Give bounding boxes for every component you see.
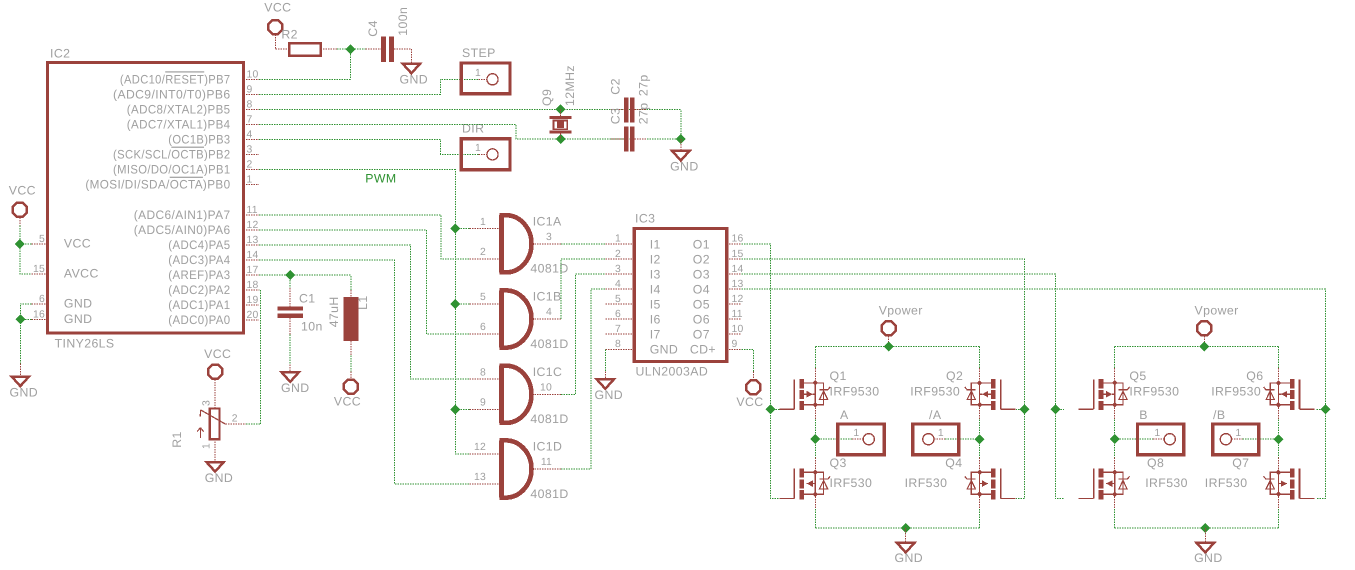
Vpower symbol bbox=[1197, 321, 1211, 335]
wire PWM branch to gate3 input2 bbox=[455, 408, 469, 410]
ground bridge bbox=[1197, 543, 1214, 553]
wire IC3 GND pin 8 bbox=[604, 349, 606, 371]
svg-text:(ADC2)PA2: (ADC2)PA2 bbox=[168, 283, 230, 297]
svg-text:2: 2 bbox=[480, 247, 486, 258]
wire pin 7 XTAL1 to crystal bottom row bbox=[259, 125, 681, 140]
C4 left pin bbox=[366, 48, 382, 50]
wire O1 net to bridge1 left gates bbox=[742, 244, 780, 499]
svg-text:(MISO/DO/OC1A)PB1: (MISO/DO/OC1A)PB1 bbox=[113, 163, 231, 177]
wire node to connector /B bbox=[1243, 438, 1279, 440]
connector B pin bbox=[1153, 438, 1164, 440]
DIR pad circle bbox=[487, 149, 498, 160]
svg-text:VCC: VCC bbox=[64, 237, 91, 251]
transistor Q3 IRF530 (N-channel) bbox=[779, 457, 830, 509]
IC3 right pin 10 stub bbox=[727, 333, 742, 335]
IC2 pin 19 stub bbox=[244, 304, 260, 306]
svg-text:O3: O3 bbox=[693, 267, 710, 281]
svg-text:C2: C2 bbox=[609, 78, 623, 95]
svg-text:VCC: VCC bbox=[334, 394, 361, 408]
IC3 right pin 15 stub bbox=[727, 258, 742, 260]
svg-text:4081D: 4081D bbox=[530, 487, 568, 501]
VCC symbol pin bbox=[19, 217, 21, 225]
IC3 left pin 6 stub bbox=[605, 318, 634, 320]
gate IC1B output pin bbox=[532, 318, 561, 320]
wire PWM branch to gate1 input1 bbox=[455, 228, 469, 230]
svg-text:100n: 100n bbox=[396, 7, 410, 36]
crystal Q9 body bbox=[549, 116, 571, 119]
svg-text:(ADC10/RESET)PB7: (ADC10/RESET)PB7 bbox=[120, 72, 231, 86]
gate IC1D input pins bbox=[469, 453, 499, 455]
wire left mid column bbox=[814, 420, 816, 458]
svg-text:(ADC3)PA4: (ADC3)PA4 bbox=[168, 253, 230, 267]
svg-text:O2: O2 bbox=[693, 252, 710, 266]
svg-text:I4: I4 bbox=[650, 283, 661, 297]
svg-text:C3: C3 bbox=[609, 108, 623, 125]
junction C2/C3 right GND bbox=[676, 134, 686, 144]
transistor Q1 IRF9530 (P-channel) bbox=[779, 368, 830, 420]
wire node to connector B bbox=[1115, 438, 1154, 440]
IC2 pin 5 stub bbox=[32, 243, 48, 245]
IC2 pin 8 stub bbox=[244, 108, 260, 110]
GND pin bridge bbox=[905, 528, 907, 543]
junction at C1 bbox=[285, 270, 295, 280]
svg-text:11: 11 bbox=[541, 457, 552, 468]
IC3 right pin 12 stub bbox=[727, 303, 742, 305]
svg-text:I5: I5 bbox=[650, 298, 661, 312]
connector /B pin bbox=[1232, 438, 1243, 440]
svg-text:IRF530: IRF530 bbox=[1145, 476, 1188, 490]
wire right bottom column bbox=[979, 509, 981, 528]
junction Vpower rail bbox=[1199, 342, 1209, 352]
svg-text:Q2: Q2 bbox=[946, 369, 963, 383]
svg-text:10: 10 bbox=[732, 324, 744, 335]
svg-text:10n: 10n bbox=[301, 320, 323, 334]
svg-text:GND: GND bbox=[595, 388, 624, 402]
svg-text:(ADC4)PA5: (ADC4)PA5 bbox=[168, 238, 230, 252]
svg-text:4081D: 4081D bbox=[530, 412, 568, 426]
svg-text:19: 19 bbox=[247, 295, 259, 306]
svg-text:VCC: VCC bbox=[736, 395, 763, 409]
wire pin 11 to gate1 input2 bbox=[259, 215, 469, 259]
svg-text:9: 9 bbox=[732, 339, 738, 350]
junction Vpower rail bbox=[884, 342, 894, 352]
svg-text:IC2: IC2 bbox=[50, 47, 70, 61]
svg-text:ULN2003AD: ULN2003AD bbox=[636, 364, 709, 378]
VCC symbol above R1 bbox=[208, 365, 222, 379]
wire Vpower top rail (A) bbox=[815, 346, 979, 348]
svg-text:VCC: VCC bbox=[264, 1, 291, 15]
gate IC1A input pins bbox=[469, 228, 499, 230]
inductor L1 body bbox=[343, 297, 358, 341]
gate IC1C output pin bbox=[532, 393, 561, 395]
svg-text:Q8: Q8 bbox=[1147, 456, 1164, 470]
svg-text:16: 16 bbox=[33, 309, 45, 320]
svg-text:IRF9530: IRF9530 bbox=[1129, 385, 1179, 399]
capacitor C1 plates bbox=[277, 306, 303, 310]
transistor Q8 IRF530 (N-channel) bbox=[1079, 457, 1130, 509]
svg-text:7: 7 bbox=[247, 115, 253, 126]
svg-text:R1: R1 bbox=[170, 431, 184, 448]
connector DIR box bbox=[461, 139, 510, 170]
svg-text:IRF530: IRF530 bbox=[1205, 476, 1248, 490]
svg-text:3: 3 bbox=[247, 145, 253, 156]
svg-text:Vpower: Vpower bbox=[879, 303, 923, 317]
svg-text:Q5: Q5 bbox=[1129, 369, 1146, 383]
wire node to connector A bbox=[815, 438, 852, 440]
IC2 pin 15 stub bbox=[32, 273, 48, 275]
IC2 pin 6 stub bbox=[32, 303, 48, 305]
ground under C4 bbox=[403, 64, 420, 74]
svg-text:GND: GND bbox=[64, 312, 93, 326]
branch O4 to Q6 gate bbox=[1317, 408, 1326, 410]
IC3 left pin 3 stub bbox=[605, 273, 634, 275]
L1 top pin bbox=[350, 290, 352, 297]
connector /A box bbox=[913, 424, 959, 455]
connector B pad circle bbox=[1164, 434, 1175, 445]
junction O4 Q6 gate bbox=[1320, 404, 1330, 414]
svg-text:4081D: 4081D bbox=[530, 337, 568, 351]
IC2 pin 16 stub bbox=[32, 318, 48, 320]
GND pin under IC3 bbox=[604, 371, 606, 379]
svg-text:3: 3 bbox=[546, 232, 552, 243]
IC3 left pin 8 stub bbox=[605, 348, 634, 350]
IC3 right pin 14 stub bbox=[727, 273, 742, 275]
svg-text:IC1D: IC1D bbox=[533, 440, 563, 454]
wire C1 to GND bbox=[289, 335, 291, 365]
wire pin 9 to STEP bbox=[259, 79, 478, 94]
junction crystal bottom bbox=[556, 134, 566, 144]
IC3 left pin 7 stub bbox=[605, 333, 634, 335]
wire L1 to VCC bbox=[350, 355, 352, 371]
svg-text:16: 16 bbox=[732, 234, 744, 245]
svg-text:1: 1 bbox=[615, 234, 621, 245]
svg-text:GND: GND bbox=[895, 551, 924, 565]
svg-text:2: 2 bbox=[232, 413, 238, 424]
ground left bbox=[12, 377, 29, 387]
svg-text:(ADC5/AIN0)PA6: (ADC5/AIN0)PA6 bbox=[134, 223, 231, 237]
transistor Q2 IRF9530 (P-channel, mirrored) bbox=[965, 368, 1016, 420]
wire gate IC1D output to IC3 I4 bbox=[561, 289, 605, 469]
svg-text:1: 1 bbox=[475, 68, 481, 79]
svg-text:4: 4 bbox=[247, 130, 253, 141]
svg-text:IRF530: IRF530 bbox=[830, 476, 873, 490]
IC2 pin 2 stub bbox=[244, 169, 260, 171]
R1 bottom pin bbox=[214, 439, 216, 462]
VCC symbol under L1 bbox=[344, 380, 358, 394]
svg-text:PWM: PWM bbox=[365, 172, 396, 186]
wire pin6 to GND net bbox=[20, 304, 31, 364]
svg-text:R2: R2 bbox=[281, 28, 298, 42]
wire down to C1 bbox=[289, 275, 291, 288]
svg-text:Q4: Q4 bbox=[945, 456, 962, 470]
junction right mid node bbox=[1274, 434, 1284, 444]
svg-text:1: 1 bbox=[853, 428, 859, 439]
svg-text:O6: O6 bbox=[693, 313, 710, 327]
svg-text:12: 12 bbox=[732, 294, 744, 305]
svg-text:VCC: VCC bbox=[204, 347, 231, 361]
svg-text:IC1A: IC1A bbox=[533, 214, 562, 228]
svg-text:GND: GND bbox=[205, 471, 234, 485]
wire R1 wiper to pin 18 bbox=[246, 290, 261, 424]
wire branch pin5 bbox=[20, 243, 32, 245]
svg-text:5: 5 bbox=[39, 234, 45, 245]
connector A box bbox=[838, 424, 884, 455]
svg-text:15: 15 bbox=[732, 249, 744, 260]
junction right mid node bbox=[975, 434, 985, 444]
IC3 right pin 13 stub bbox=[727, 288, 742, 290]
connector A pad circle bbox=[863, 434, 874, 445]
svg-text:I3: I3 bbox=[650, 267, 661, 281]
wire pin 12 to gate2 input2 bbox=[259, 230, 469, 334]
svg-text:Q1: Q1 bbox=[830, 369, 847, 383]
junction bottom rail bbox=[1200, 523, 1210, 533]
wire gate IC1A output to IC3 I1 bbox=[561, 243, 605, 245]
junction PWM gate1 bbox=[450, 224, 460, 234]
svg-text:(MOSI/DI/SDA/OCTA)PB0: (MOSI/DI/SDA/OCTA)PB0 bbox=[85, 178, 230, 192]
svg-text:GND: GND bbox=[64, 297, 93, 311]
svg-text:IC1C: IC1C bbox=[533, 365, 563, 379]
wire right mid column bbox=[979, 420, 981, 458]
wire rail to top right transistor bbox=[979, 347, 981, 369]
svg-text:20: 20 bbox=[247, 310, 259, 321]
capacitor C4 plates bbox=[381, 37, 386, 62]
resistor R2 bbox=[289, 43, 320, 55]
wire PWM branch to gate2 input1 bbox=[455, 303, 469, 305]
op-amp style AND gate IC1A body bbox=[499, 215, 531, 272]
svg-text:L1: L1 bbox=[356, 295, 370, 309]
wire left bottom column bbox=[1114, 509, 1116, 528]
svg-text:GND: GND bbox=[10, 385, 39, 399]
wire pin 17 to C1 and L1 bbox=[259, 275, 351, 290]
transistor Q6 IRF9530 (P-channel, mirrored) bbox=[1264, 368, 1315, 420]
connector /B box bbox=[1213, 424, 1259, 455]
GND symbol pin left bbox=[19, 364, 21, 377]
svg-text:(ADC9/INT0/T0)PB6: (ADC9/INT0/T0)PB6 bbox=[113, 87, 231, 101]
IC2 pin 20 stub bbox=[244, 319, 260, 321]
connector /A pad circle bbox=[923, 434, 934, 445]
capacitor C2 plates bbox=[624, 98, 628, 123]
svg-text:DIR: DIR bbox=[462, 122, 484, 136]
C1 top pin bbox=[289, 288, 291, 306]
DIR connector pin bbox=[478, 153, 487, 155]
svg-text:IRF530: IRF530 bbox=[905, 476, 948, 490]
svg-text:O5: O5 bbox=[693, 298, 710, 312]
IC2 pin 14 stub bbox=[244, 259, 260, 261]
svg-text:7: 7 bbox=[615, 324, 621, 335]
svg-text:(ADC7/XTAL1)PB4: (ADC7/XTAL1)PB4 bbox=[127, 118, 231, 132]
svg-text:2: 2 bbox=[615, 249, 621, 260]
op-amp style AND gate IC1B body bbox=[499, 290, 531, 347]
svg-text:13: 13 bbox=[247, 235, 259, 246]
svg-text:11: 11 bbox=[247, 205, 258, 216]
svg-text:12: 12 bbox=[247, 220, 259, 231]
svg-text:3: 3 bbox=[615, 264, 621, 275]
svg-text:1: 1 bbox=[475, 143, 481, 154]
gate IC1C input pins bbox=[469, 378, 499, 380]
wire left bottom column bbox=[814, 509, 816, 528]
branch O2 to Q2 gate bbox=[1016, 408, 1025, 410]
svg-text:1: 1 bbox=[1154, 428, 1160, 439]
IC3 right pin 11 stub bbox=[727, 318, 742, 320]
svg-text:(ADC6/AIN1)PA7: (ADC6/AIN1)PA7 bbox=[134, 208, 231, 222]
svg-text:(SCK/SCL/OCTB)PB2: (SCK/SCL/OCTB)PB2 bbox=[113, 148, 231, 162]
connector A pin bbox=[852, 438, 863, 440]
svg-text:GND: GND bbox=[650, 343, 679, 357]
GND pin under C1 bbox=[289, 365, 291, 373]
svg-text:27p: 27p bbox=[637, 74, 651, 96]
wire gate IC1B output to IC3 I2 bbox=[561, 259, 605, 319]
svg-text:(OC1B)PB3: (OC1B)PB3 bbox=[168, 133, 230, 147]
transistor Q7 IRF530 (N-channel, mirrored) bbox=[1264, 457, 1315, 509]
svg-text:Q9: Q9 bbox=[540, 89, 554, 106]
svg-text:1: 1 bbox=[480, 217, 486, 228]
svg-text:6: 6 bbox=[480, 322, 486, 333]
svg-text:C4: C4 bbox=[366, 20, 380, 37]
svg-text:13: 13 bbox=[732, 279, 744, 290]
svg-text:15: 15 bbox=[33, 264, 45, 275]
IC3 ULN2003AD body bbox=[634, 229, 726, 362]
wire pin16 branch bbox=[20, 318, 31, 320]
svg-text:1: 1 bbox=[202, 443, 213, 449]
svg-text:Q6: Q6 bbox=[1246, 369, 1263, 383]
svg-text:STEP: STEP bbox=[462, 46, 496, 60]
junction at pin5 row bbox=[15, 239, 25, 249]
C4 right pin to GND bbox=[394, 48, 412, 50]
Vpower pin bbox=[888, 336, 890, 347]
svg-text:2: 2 bbox=[247, 160, 253, 171]
svg-text:9: 9 bbox=[247, 84, 253, 95]
R1 wiper pin bbox=[226, 423, 246, 425]
svg-text:27p: 27p bbox=[637, 102, 651, 124]
svg-text:I1: I1 bbox=[650, 237, 661, 251]
connector B box bbox=[1138, 424, 1184, 455]
wire pin 4 to DIR bbox=[259, 140, 478, 155]
gate IC1D output pin bbox=[532, 468, 561, 470]
svg-text:Q3: Q3 bbox=[830, 456, 847, 470]
junction O2 Q2 gate bbox=[1020, 404, 1030, 414]
STEP connector pin bbox=[478, 78, 487, 80]
ground under IC3 bbox=[597, 379, 614, 389]
wire O4 net to bridge2 right gates bbox=[742, 289, 1326, 498]
connector /A pin bbox=[934, 438, 945, 440]
IC2 pin 11 stub bbox=[244, 214, 260, 216]
VCC symbol left bbox=[13, 203, 27, 217]
wire bottom rail bbox=[1115, 527, 1279, 529]
svg-text:4: 4 bbox=[546, 307, 552, 318]
gate IC1A output pin bbox=[532, 243, 561, 245]
VCC symbol top bbox=[268, 20, 282, 34]
wire rail to top right transistor bbox=[1278, 347, 1280, 369]
svg-text:17: 17 bbox=[247, 265, 259, 276]
svg-text:14: 14 bbox=[247, 250, 259, 261]
svg-text:A: A bbox=[840, 408, 849, 422]
svg-text:I2: I2 bbox=[650, 252, 661, 266]
junction left mid node bbox=[1110, 434, 1120, 444]
junction O1 Q1 gate bbox=[765, 404, 775, 414]
IC3 left pin 4 stub bbox=[605, 288, 634, 290]
svg-text:3: 3 bbox=[202, 400, 213, 406]
VCC pin under IC3 bbox=[752, 372, 754, 380]
IC2 pin 4 stub bbox=[244, 139, 260, 141]
svg-text:8: 8 bbox=[247, 99, 253, 110]
wire O3 net to bridge2 left gates bbox=[742, 274, 1064, 499]
svg-text:4081D: 4081D bbox=[530, 262, 568, 276]
wire PWM net from pin 2 bbox=[259, 170, 469, 454]
IC2 pin 17 stub bbox=[244, 274, 260, 276]
IC3 left pin 1 stub bbox=[605, 243, 634, 245]
svg-text:(AREF)PA3: (AREF)PA3 bbox=[168, 268, 230, 282]
svg-text:VCC: VCC bbox=[9, 184, 36, 198]
svg-text:8: 8 bbox=[615, 339, 621, 350]
ground under R1 bbox=[206, 462, 223, 472]
op-amp style AND gate IC1C body bbox=[499, 366, 531, 423]
VCC symbol under IC3 bbox=[746, 380, 760, 394]
C1 bottom pin bbox=[289, 318, 291, 335]
IC3 left pin 2 stub bbox=[605, 258, 634, 260]
VCC pin under L1 bbox=[350, 371, 352, 379]
GND pin under C2/C3 bbox=[680, 139, 682, 151]
GND pin bridge bbox=[1204, 528, 1206, 543]
wire rail to top left transistor bbox=[814, 347, 816, 369]
IC2 pin 18 stub bbox=[244, 289, 260, 291]
ground bridge bbox=[897, 543, 914, 553]
capacitor C3 plates bbox=[624, 126, 628, 151]
svg-text:Vpower: Vpower bbox=[1195, 303, 1239, 317]
ground under crystal caps bbox=[672, 151, 689, 161]
wire down to pin 10 row bbox=[350, 49, 352, 79]
IC2 pin 12 stub bbox=[244, 229, 260, 231]
wire VCC to pins 5 and 15 bbox=[20, 226, 32, 275]
IC2 pin 3 stub bbox=[244, 154, 260, 156]
svg-text:IRF9530: IRF9530 bbox=[910, 385, 960, 399]
IC2 pin 13 stub bbox=[244, 244, 260, 246]
svg-text:O1: O1 bbox=[693, 237, 710, 251]
junction O3 Q5 gate bbox=[1050, 404, 1060, 414]
junction PWM gate2 bbox=[450, 299, 460, 309]
wire gate IC1C output to IC3 I3 bbox=[561, 274, 605, 394]
svg-text:9: 9 bbox=[480, 398, 486, 409]
IC3 right pin 16 stub bbox=[727, 243, 742, 245]
svg-text:TINY26LS: TINY26LS bbox=[55, 337, 115, 351]
IC2 pin 9 stub bbox=[244, 93, 260, 95]
op-amp style AND gate IC1D body bbox=[499, 440, 531, 497]
junction bottom rail bbox=[901, 523, 911, 533]
svg-text:6: 6 bbox=[615, 309, 621, 320]
branch O3 to Q5 gate bbox=[1055, 408, 1064, 410]
svg-text:GND: GND bbox=[400, 72, 429, 86]
svg-text:I6: I6 bbox=[650, 313, 661, 327]
svg-text:(ADC0)PA0: (ADC0)PA0 bbox=[168, 313, 230, 327]
svg-text:13: 13 bbox=[474, 472, 486, 483]
svg-text:10: 10 bbox=[540, 383, 552, 394]
svg-text:5: 5 bbox=[480, 292, 486, 303]
svg-text:1: 1 bbox=[938, 428, 944, 439]
svg-text:GND: GND bbox=[1194, 551, 1223, 565]
svg-text:1: 1 bbox=[247, 175, 253, 186]
Vpower symbol bbox=[882, 321, 896, 335]
svg-text:O4: O4 bbox=[693, 283, 710, 297]
svg-text:12MHz: 12MHz bbox=[563, 65, 577, 106]
svg-text:AVCC: AVCC bbox=[64, 267, 99, 281]
R1 top pin bbox=[214, 379, 216, 408]
svg-text:6: 6 bbox=[39, 294, 45, 305]
potentiometer R1 body bbox=[210, 409, 220, 440]
junction PWM gate3 bbox=[450, 404, 460, 414]
wire rail to top left transistor bbox=[1114, 347, 1116, 369]
R2 pins bbox=[274, 35, 276, 50]
wire right mid column bbox=[1278, 420, 1280, 458]
wire O2 net to bridge1 right gates bbox=[742, 259, 1025, 499]
